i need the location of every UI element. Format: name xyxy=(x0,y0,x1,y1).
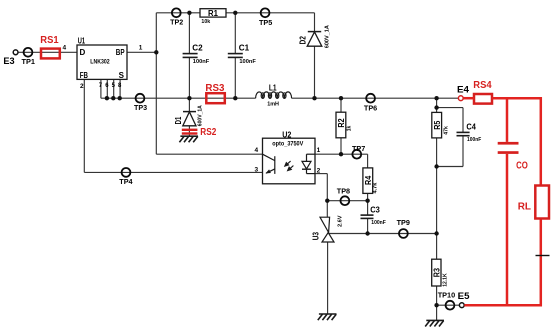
wire FB to U2 pin3 xyxy=(84,171,262,173)
svg-text:4.7k: 4.7k xyxy=(372,182,378,194)
wire R2 bottom lead xyxy=(340,138,342,154)
inductor L1 xyxy=(256,92,292,99)
svg-text:U3: U3 xyxy=(312,232,321,241)
wire C1 bottom branch xyxy=(234,58,236,99)
wire R3 bottom lead xyxy=(436,286,438,305)
svg-text:U2: U2 xyxy=(282,130,292,139)
wire down to R3 xyxy=(436,167,438,260)
terminal E5 xyxy=(458,291,471,308)
testpoint TP10 xyxy=(438,291,456,310)
light arrows of U2 xyxy=(285,161,294,171)
svg-text:TP2: TP2 xyxy=(170,18,183,27)
wire C3 bottom lead xyxy=(367,218,369,233)
node S bus 1 xyxy=(105,96,109,100)
node C1 bottom xyxy=(233,96,237,100)
svg-text:C4: C4 xyxy=(466,122,476,131)
svg-text:C3: C3 xyxy=(370,205,380,214)
resistor RL xyxy=(518,186,549,219)
wire to U2 pin4 xyxy=(156,153,262,155)
ground under U3 xyxy=(318,314,337,320)
svg-text:R1: R1 xyxy=(208,9,218,18)
wire U3 top lead xyxy=(326,201,328,218)
shunt RS2 xyxy=(182,127,217,138)
testpoint TP4 xyxy=(119,168,133,186)
svg-text:RS3: RS3 xyxy=(205,83,224,94)
wire R4 bottom lead xyxy=(367,193,369,200)
capacitor C3 xyxy=(361,205,387,226)
wire C1 top branch xyxy=(234,13,236,54)
svg-text:CO: CO xyxy=(516,161,528,172)
svg-text:1: 1 xyxy=(317,147,321,154)
svg-text:1k: 1k xyxy=(347,125,353,131)
svg-text:D: D xyxy=(80,48,86,57)
svg-text:TP8: TP8 xyxy=(337,187,350,196)
wire top rail xyxy=(156,12,314,14)
svg-text:100nF: 100nF xyxy=(467,137,482,143)
svg-text:S: S xyxy=(119,71,125,80)
svg-text:TP10: TP10 xyxy=(438,291,456,300)
wire RL to bottom rail xyxy=(540,219,543,307)
svg-text:100nF: 100nF xyxy=(193,59,210,65)
resistor R3 xyxy=(432,259,449,287)
testpoint TP6 xyxy=(364,94,377,113)
svg-text:TP9: TP9 xyxy=(397,218,410,227)
testpoint TP9 xyxy=(397,218,410,238)
svg-text:TP7: TP7 xyxy=(352,144,365,153)
optocoupler U2 xyxy=(255,130,321,183)
svg-text:RS4: RS4 xyxy=(473,80,492,91)
node D1 top xyxy=(187,96,191,100)
terminal E4 xyxy=(457,85,470,101)
svg-text:C1: C1 xyxy=(239,44,250,53)
shunt RS1 xyxy=(40,35,60,59)
shunt RS4 xyxy=(473,80,492,104)
wire U3 bottom lead xyxy=(327,242,329,314)
svg-text:TP5: TP5 xyxy=(259,18,272,27)
node R2 bottom xyxy=(339,152,343,156)
ground under RS2 xyxy=(179,136,198,142)
wire D1 top lead xyxy=(188,98,190,111)
wire U1 FB down xyxy=(83,79,85,172)
svg-text:opto_3750V: opto_3750V xyxy=(272,141,304,148)
svg-text:2: 2 xyxy=(80,83,84,90)
node TP9 rail right xyxy=(434,231,438,235)
IC U1 LNK302 xyxy=(63,37,143,90)
diode D2 xyxy=(299,25,331,48)
wire TP8 rail xyxy=(327,200,367,202)
wire vertical bus x156 xyxy=(155,13,157,154)
wire R5 C4 join xyxy=(437,166,463,168)
node BP xyxy=(154,50,158,54)
wire main source rail right xyxy=(292,97,459,99)
svg-text:RL: RL xyxy=(518,201,531,212)
svg-text:10k: 10k xyxy=(201,19,211,25)
svg-text:E5: E5 xyxy=(458,291,471,302)
wire R5 bottom lead xyxy=(436,138,438,167)
node C3 bottom xyxy=(365,231,369,235)
node E4 rail xyxy=(434,96,438,100)
capacitor CO xyxy=(498,142,528,172)
svg-text:R2: R2 xyxy=(337,118,346,128)
svg-text:LNK302: LNK302 xyxy=(90,59,110,66)
node C4 branch xyxy=(434,105,438,109)
svg-text:E3: E3 xyxy=(3,56,14,67)
svg-text:BP: BP xyxy=(116,48,125,57)
node S bus 3 xyxy=(118,96,122,100)
svg-text:FB: FB xyxy=(80,71,88,80)
node R4 C3 xyxy=(365,199,369,203)
testpoint TP5 xyxy=(259,8,272,27)
wire down to R4 xyxy=(367,154,369,168)
wire TP10 rail xyxy=(437,304,460,306)
capacitor C2 xyxy=(183,44,210,65)
svg-text:D2: D2 xyxy=(299,36,308,45)
wire D2 top lead xyxy=(314,13,316,32)
wire input E3 to U1 D xyxy=(18,51,77,53)
testpoint TP3 xyxy=(134,94,147,112)
svg-text:1: 1 xyxy=(139,45,143,52)
phototransistor of U2 xyxy=(263,154,275,174)
wire right down to RL xyxy=(540,97,543,186)
wire pin2 down xyxy=(326,174,328,201)
ground at TP10 xyxy=(425,320,444,326)
svg-text:4: 4 xyxy=(63,45,67,52)
svg-text:100nF: 100nF xyxy=(371,220,386,226)
svg-text:RS1: RS1 xyxy=(40,35,59,46)
svg-text:R5: R5 xyxy=(433,120,442,130)
svg-text:4: 4 xyxy=(255,147,259,154)
terminal E3 xyxy=(3,50,18,67)
wire U1 S pin stub 8 xyxy=(119,79,121,98)
node R5 C4 bottom xyxy=(434,164,438,168)
resistor R5 xyxy=(432,112,450,137)
wire CO branch down xyxy=(506,97,509,142)
wire RS4 to corner xyxy=(492,97,541,100)
node TP10 xyxy=(434,303,438,307)
svg-text:3: 3 xyxy=(255,167,259,174)
svg-text:TP1: TP1 xyxy=(22,57,36,66)
node S bus 2 xyxy=(111,96,115,100)
wire E4 to RS4 xyxy=(463,97,474,100)
wire U1 S pin stub 7 xyxy=(100,79,102,98)
LED of U2 xyxy=(302,154,315,173)
svg-text:47k: 47k xyxy=(444,125,450,134)
wire U2 pin1 rail xyxy=(315,153,368,155)
resistor R4 xyxy=(363,168,379,194)
wire node E4 down xyxy=(436,98,438,112)
resistor R1 xyxy=(200,9,226,25)
svg-text:2.6V: 2.6V xyxy=(337,215,343,227)
svg-text:1mH: 1mH xyxy=(267,101,279,107)
svg-text:D1: D1 xyxy=(174,116,183,124)
wire C2 bottom branch xyxy=(188,58,190,99)
wire U1 BP to node xyxy=(127,51,156,53)
red load wiring xyxy=(463,97,542,306)
svg-text:600V_1A: 600V_1A xyxy=(197,105,203,126)
node C1 top xyxy=(233,11,237,15)
svg-text:R3: R3 xyxy=(433,268,442,278)
zener U3 xyxy=(312,215,344,242)
testpoint TP1 xyxy=(22,48,36,66)
wire C4 bottom lead xyxy=(462,136,464,167)
node pin2 TP8 xyxy=(325,199,329,203)
svg-text:RS2: RS2 xyxy=(200,127,216,138)
node D2 bottom xyxy=(312,96,316,100)
wire TP9 rail xyxy=(329,233,437,235)
wire CO to bottom rail xyxy=(506,154,509,305)
svg-text:TP4: TP4 xyxy=(119,177,133,186)
node R2 top xyxy=(339,96,343,100)
wire branch to C4 xyxy=(437,107,463,109)
svg-text:12.1K: 12.1K xyxy=(442,273,448,286)
capacitor C4 xyxy=(457,122,482,143)
wire D2 bottom lead xyxy=(314,46,316,98)
svg-text:E4: E4 xyxy=(457,85,470,96)
testpoint TP8 xyxy=(337,187,350,205)
svg-text:100nF: 100nF xyxy=(239,59,256,65)
svg-text:2: 2 xyxy=(317,167,321,174)
svg-text:L1: L1 xyxy=(269,83,277,92)
diode D1 xyxy=(174,105,203,126)
wire U2 pin2 stub xyxy=(315,173,327,175)
shunt RS3 xyxy=(205,83,224,103)
wire bottom rail to E5 xyxy=(464,304,542,307)
wire D1 bottom lead xyxy=(188,126,190,136)
wire U1 S pin stub 6 xyxy=(106,79,108,98)
wire C3 top lead xyxy=(367,201,369,215)
svg-text:U1: U1 xyxy=(78,37,86,46)
resistor R2 xyxy=(336,112,353,138)
wire main source rail left xyxy=(101,97,256,99)
minus polarity mark xyxy=(536,255,550,257)
capacitor C1 xyxy=(228,44,256,65)
svg-text:C2: C2 xyxy=(192,44,203,53)
wire R2 top lead xyxy=(340,98,342,112)
wire U1 S pin stub 5 xyxy=(113,79,115,98)
node C2 top xyxy=(187,11,191,15)
wire C2 top branch xyxy=(188,13,190,54)
svg-text:600V_1A: 600V_1A xyxy=(324,25,330,48)
testpoint TP7 xyxy=(352,144,365,159)
wire C4 top lead xyxy=(462,108,464,133)
svg-text:TP6: TP6 xyxy=(364,104,377,113)
svg-text:TP3: TP3 xyxy=(134,103,147,112)
testpoint TP2 xyxy=(170,8,183,26)
wire ground stub bottom right xyxy=(436,305,438,320)
